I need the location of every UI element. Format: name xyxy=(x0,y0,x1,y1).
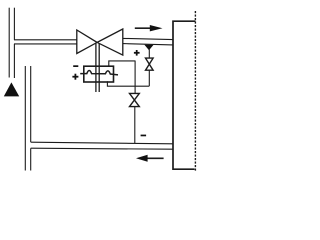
actuator box U1 (diaphragm actuator) xyxy=(84,66,114,82)
needle valve NV2 (hourglass) xyxy=(130,93,140,106)
wire: NV2 down to bottom pipe xyxy=(134,107,136,143)
wire: signal vertical to NV2 xyxy=(134,61,136,93)
column centerline (dashed) xyxy=(194,11,196,172)
wire: signal loop from box top xyxy=(109,61,136,66)
label plus (actuator) xyxy=(72,74,78,80)
label minus (bottom pipe) xyxy=(141,135,147,137)
pipe P1 right line lower xyxy=(13,44,15,78)
pipe P1 left line xyxy=(8,8,10,78)
wire: signal horizontal line with jog from box bottom xyxy=(107,81,149,86)
pipe P2 right line xyxy=(30,66,32,142)
valve stem double line xyxy=(95,44,97,93)
wire: outlet pipe top line xyxy=(123,38,173,39)
wire: inlet pipe bottom line xyxy=(14,43,77,45)
wire: NV1 down then left xyxy=(148,70,150,86)
wire: bottom pipe top line xyxy=(31,142,173,144)
wire: outlet pipe bottom line xyxy=(123,44,173,45)
column (vessel) wall xyxy=(173,21,196,169)
wire: bottom pipe bottom line xyxy=(31,148,173,149)
pipe P1 right line xyxy=(13,8,15,40)
arrow flow right (top) xyxy=(135,25,163,31)
valve V1 body (control valve bowtie) xyxy=(77,29,123,55)
label plus (near NV1) xyxy=(134,50,140,56)
node: pipe tap (filled down triangle) xyxy=(144,45,153,51)
arrow flow left (bottom) xyxy=(136,155,164,162)
pipe P2 right line lower xyxy=(30,148,32,170)
needle valve NV1 (hourglass) xyxy=(146,58,154,70)
pipe P2 left line xyxy=(24,66,26,171)
diaphragm wavy line xyxy=(80,70,118,74)
wire: tap down to NV1 xyxy=(148,50,150,59)
node: flow arrow up (filled triangle) xyxy=(4,82,19,96)
wire: inlet pipe top line xyxy=(14,39,77,41)
label minus (actuator) xyxy=(73,65,78,67)
